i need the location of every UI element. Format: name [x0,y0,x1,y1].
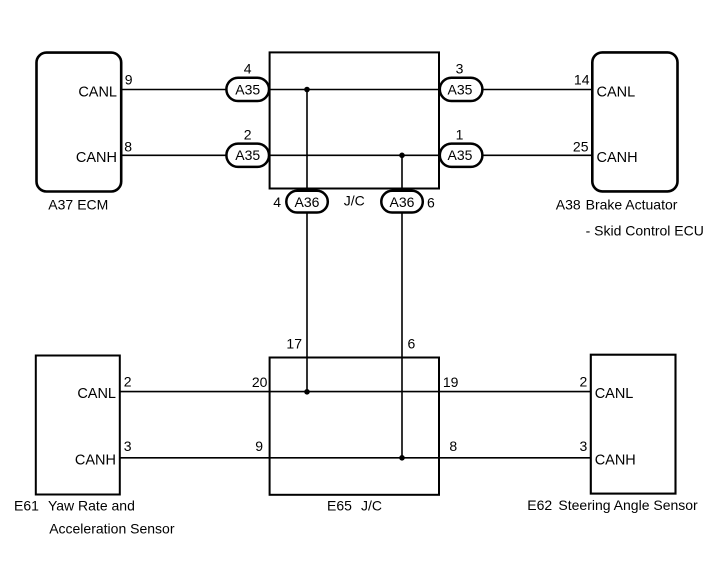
svg-text:6: 6 [408,336,416,352]
connector A35 pin3 oval [440,78,483,101]
svg-text:20: 20 [252,374,268,390]
svg-text:9: 9 [255,438,263,454]
connector A35 pin1 oval [440,144,483,167]
wire CANL top (A37 pin9 to A38 pin14) [122,89,593,91]
svg-text:2: 2 [244,126,252,142]
svg-text:A35: A35 [448,147,473,163]
svg-text:J/C: J/C [344,192,365,208]
svg-text:- Skid Control ECU: - Skid Control ECU [586,223,704,239]
svg-text:A35: A35 [235,147,260,163]
svg-text:CANL: CANL [77,386,116,402]
svg-text:17: 17 [286,336,302,352]
steering angle sensor E62 box [591,355,676,494]
connector A35 pin4 oval [226,78,269,101]
svg-text:E61 Yaw Rate and: E61 Yaw Rate and [14,497,135,513]
svg-text:CANL: CANL [78,84,117,100]
junction block E65 box [270,358,439,495]
junction block J/C top box [270,52,439,188]
brake actuator A38 box [592,52,677,191]
svg-text:1: 1 [456,126,464,142]
svg-text:Acceleration Sensor: Acceleration Sensor [49,520,175,536]
svg-text:A35: A35 [448,82,473,98]
connector A36 pin4 oval [286,191,328,213]
svg-text:14: 14 [574,71,590,87]
svg-text:3: 3 [124,438,132,454]
svg-text:A38 Brake Actuator: A38 Brake Actuator [556,197,678,213]
svg-text:A35: A35 [235,82,260,98]
svg-text:2: 2 [580,374,588,390]
wire CANH bottom (E61 pin3 to E62 pin3) [120,457,591,459]
svg-text:CANH: CANH [597,150,638,166]
svg-text:CANL: CANL [595,386,634,402]
wire vertical CANL branch (A36 pin4 to E65 pin17) [306,90,308,392]
svg-text:6: 6 [427,195,435,211]
svg-text:4: 4 [273,194,281,210]
svg-text:2: 2 [124,374,132,390]
svg-text:4: 4 [244,61,252,77]
svg-text:A36: A36 [390,194,415,210]
node junction dot CANH bottom [399,455,405,461]
svg-text:CANH: CANH [75,452,116,468]
svg-text:CANH: CANH [595,452,636,468]
wire vertical CANH branch (A36 pin6 to E65 pin6) [401,155,403,458]
svg-text:8: 8 [449,438,457,454]
wire CANH top (A37 pin8 to A38 pin25) [122,154,593,156]
svg-text:CANH: CANH [76,150,117,166]
wire CANL bottom (E61 pin2 to E62 pin2) [120,391,591,393]
svg-text:3: 3 [456,61,464,77]
svg-text:25: 25 [573,138,589,154]
svg-text:E62 Steering Angle Sensor: E62 Steering Angle Sensor [527,497,698,513]
ECM A37 box [37,53,122,192]
svg-text:E65 J/C: E65 J/C [327,497,382,513]
yaw rate sensor E61 box [36,356,120,495]
node junction dot CANL bottom [304,389,310,395]
svg-text:9: 9 [125,71,133,87]
svg-text:A37 ECM: A37 ECM [48,196,108,212]
node junction dot CANH top [399,153,405,159]
connector A36 pin6 oval [381,191,423,213]
svg-text:A36: A36 [295,194,320,210]
svg-text:8: 8 [124,138,132,154]
node junction dot CANL top [304,87,310,93]
svg-text:19: 19 [443,374,459,390]
svg-text:3: 3 [580,438,588,454]
svg-text:CANL: CANL [597,84,636,100]
connector A35 pin2 oval [226,144,269,167]
